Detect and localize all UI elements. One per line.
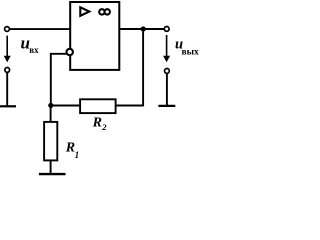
op-amp U1 — [70, 2, 119, 70]
op-amp triangle symbol — [80, 7, 89, 16]
wire input ground stub — [6, 72, 8, 106]
label R1 — [65, 141, 79, 160]
wire junction to R1 — [50, 105, 52, 122]
resistor R2 — [80, 99, 116, 113]
node junction output — [141, 26, 146, 31]
output terminal bottom — [165, 69, 170, 74]
svg-text:1: 1 — [75, 150, 80, 160]
voltage arrow input — [4, 36, 11, 63]
node junction feedback — [48, 103, 53, 108]
ground output rail — [158, 105, 175, 107]
ground bottom rail — [39, 173, 66, 175]
inverting input bubble — [67, 49, 73, 55]
output terminal top — [164, 27, 169, 32]
voltage arrow output — [163, 35, 170, 62]
wire output ground stub — [166, 73, 168, 106]
wire R2 to output node — [116, 29, 144, 106]
wire junction to R2 — [51, 105, 80, 107]
input terminal top — [5, 27, 10, 32]
wire R1 to ground — [50, 160, 52, 174]
svg-text:R: R — [92, 116, 102, 131]
resistor R1 — [44, 122, 57, 160]
infinity gain symbol — [99, 9, 110, 14]
label u_vyx — [175, 36, 199, 57]
svg-text:2: 2 — [101, 122, 107, 132]
wire output — [119, 28, 164, 30]
svg-text:R: R — [65, 141, 75, 156]
label R2 — [92, 116, 108, 132]
svg-text:вх: вх — [29, 45, 39, 55]
label u_vx — [21, 34, 40, 56]
wire non-inverting input — [9, 28, 70, 30]
ground input rail — [0, 105, 16, 107]
wire inverting input — [51, 53, 67, 106]
svg-text:вых: вых — [182, 48, 200, 58]
input terminal bottom — [5, 68, 10, 73]
